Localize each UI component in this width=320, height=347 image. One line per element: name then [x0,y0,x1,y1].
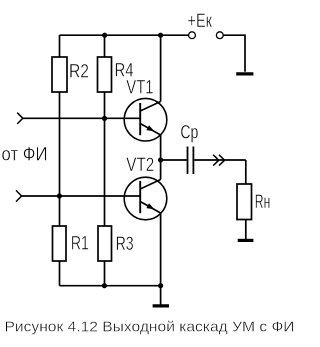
node junction input2 R2 column [57,193,62,198]
wire left column top segment [59,35,61,57]
wire bottom rail [60,285,161,287]
wire capacitor to output corner [194,159,246,161]
wire VT2 emitter down [160,213,162,286]
resistor R3 [98,226,134,261]
wire load to ground [245,220,247,240]
terminal circle right [216,32,223,39]
output chevron arrows [213,155,224,166]
wire VT1 emitter to VT2 collector [160,135,162,180]
svg-text:VT1: VT1 [126,77,153,98]
svg-text:Ср: Ср [180,122,198,143]
svg-text:+Ек: +Ек [188,11,213,32]
wire to center ground [160,286,162,305]
wire second column middle segment [104,92,106,226]
wire input 2 [22,195,141,197]
terminal circle left [189,32,196,39]
svg-text:Rн: Rн [255,192,270,213]
wire output down to load [245,160,247,184]
node junction bottom rail R3 [102,283,107,288]
resistor Rн [237,184,270,220]
svg-text:VT2: VT2 [126,155,154,176]
resistor R1 [53,226,89,261]
wire top rail [60,34,189,36]
svg-text:от ФИ: от ФИ [2,144,48,165]
input arrow 1 [17,113,23,124]
transistor VT2 [124,177,167,220]
svg-text:R1: R1 [71,234,89,255]
node junction input1 R4 column [102,116,107,121]
wire VT1 collector up [160,35,162,101]
ground supply [236,72,253,75]
transistor VT1 [124,98,167,141]
wire input 1 [23,117,140,119]
svg-text:R3: R3 [116,234,134,255]
input arrow 2 [16,190,22,201]
ground load [238,239,254,242]
node junction bottom rail emitter column [158,283,163,288]
resistor R2 [52,57,89,92]
wire second column bottom segment [104,261,106,286]
wire terminal to supply ground [223,35,245,72]
ground center [153,304,169,307]
node junction top rail R4 [102,33,107,38]
resistor R4 [98,57,134,92]
svg-text:R2: R2 [69,62,89,83]
svg-text:Рисунок 4.12 Выходной каскад У: Рисунок 4.12 Выходной каскад УМ с ФИ [5,319,295,336]
node junction top rail collector column [158,33,163,38]
wire second column top segment [104,35,106,57]
capacitor Cp [188,147,194,175]
wire left column middle segment [59,92,61,226]
wire left column bottom segment [59,261,61,286]
wire output node to capacitor [161,159,187,161]
node output junction [158,157,163,162]
